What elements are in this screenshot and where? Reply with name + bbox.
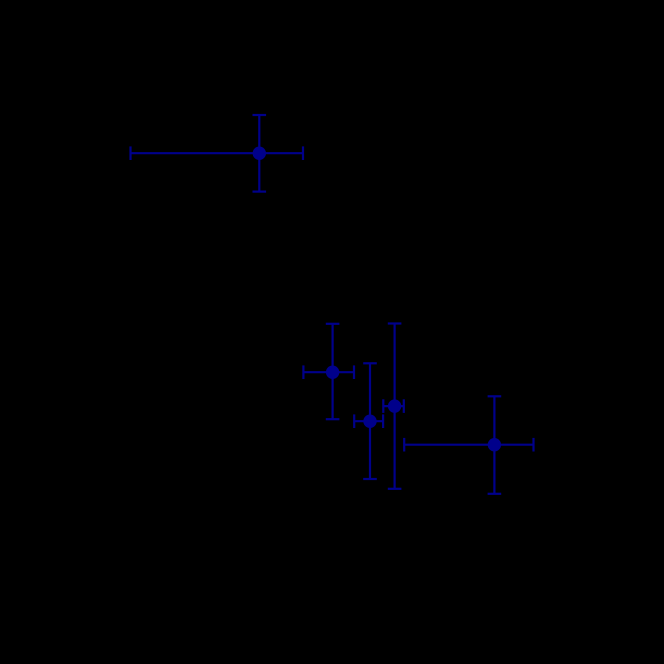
- data point P5 with error bars: [404, 396, 533, 494]
- data point P3 with error bars: [354, 363, 383, 479]
- data point P4 with error bars: [383, 324, 404, 489]
- data point P1 with error bars: [131, 115, 304, 192]
- data point P2 with error bars: [303, 324, 354, 419]
